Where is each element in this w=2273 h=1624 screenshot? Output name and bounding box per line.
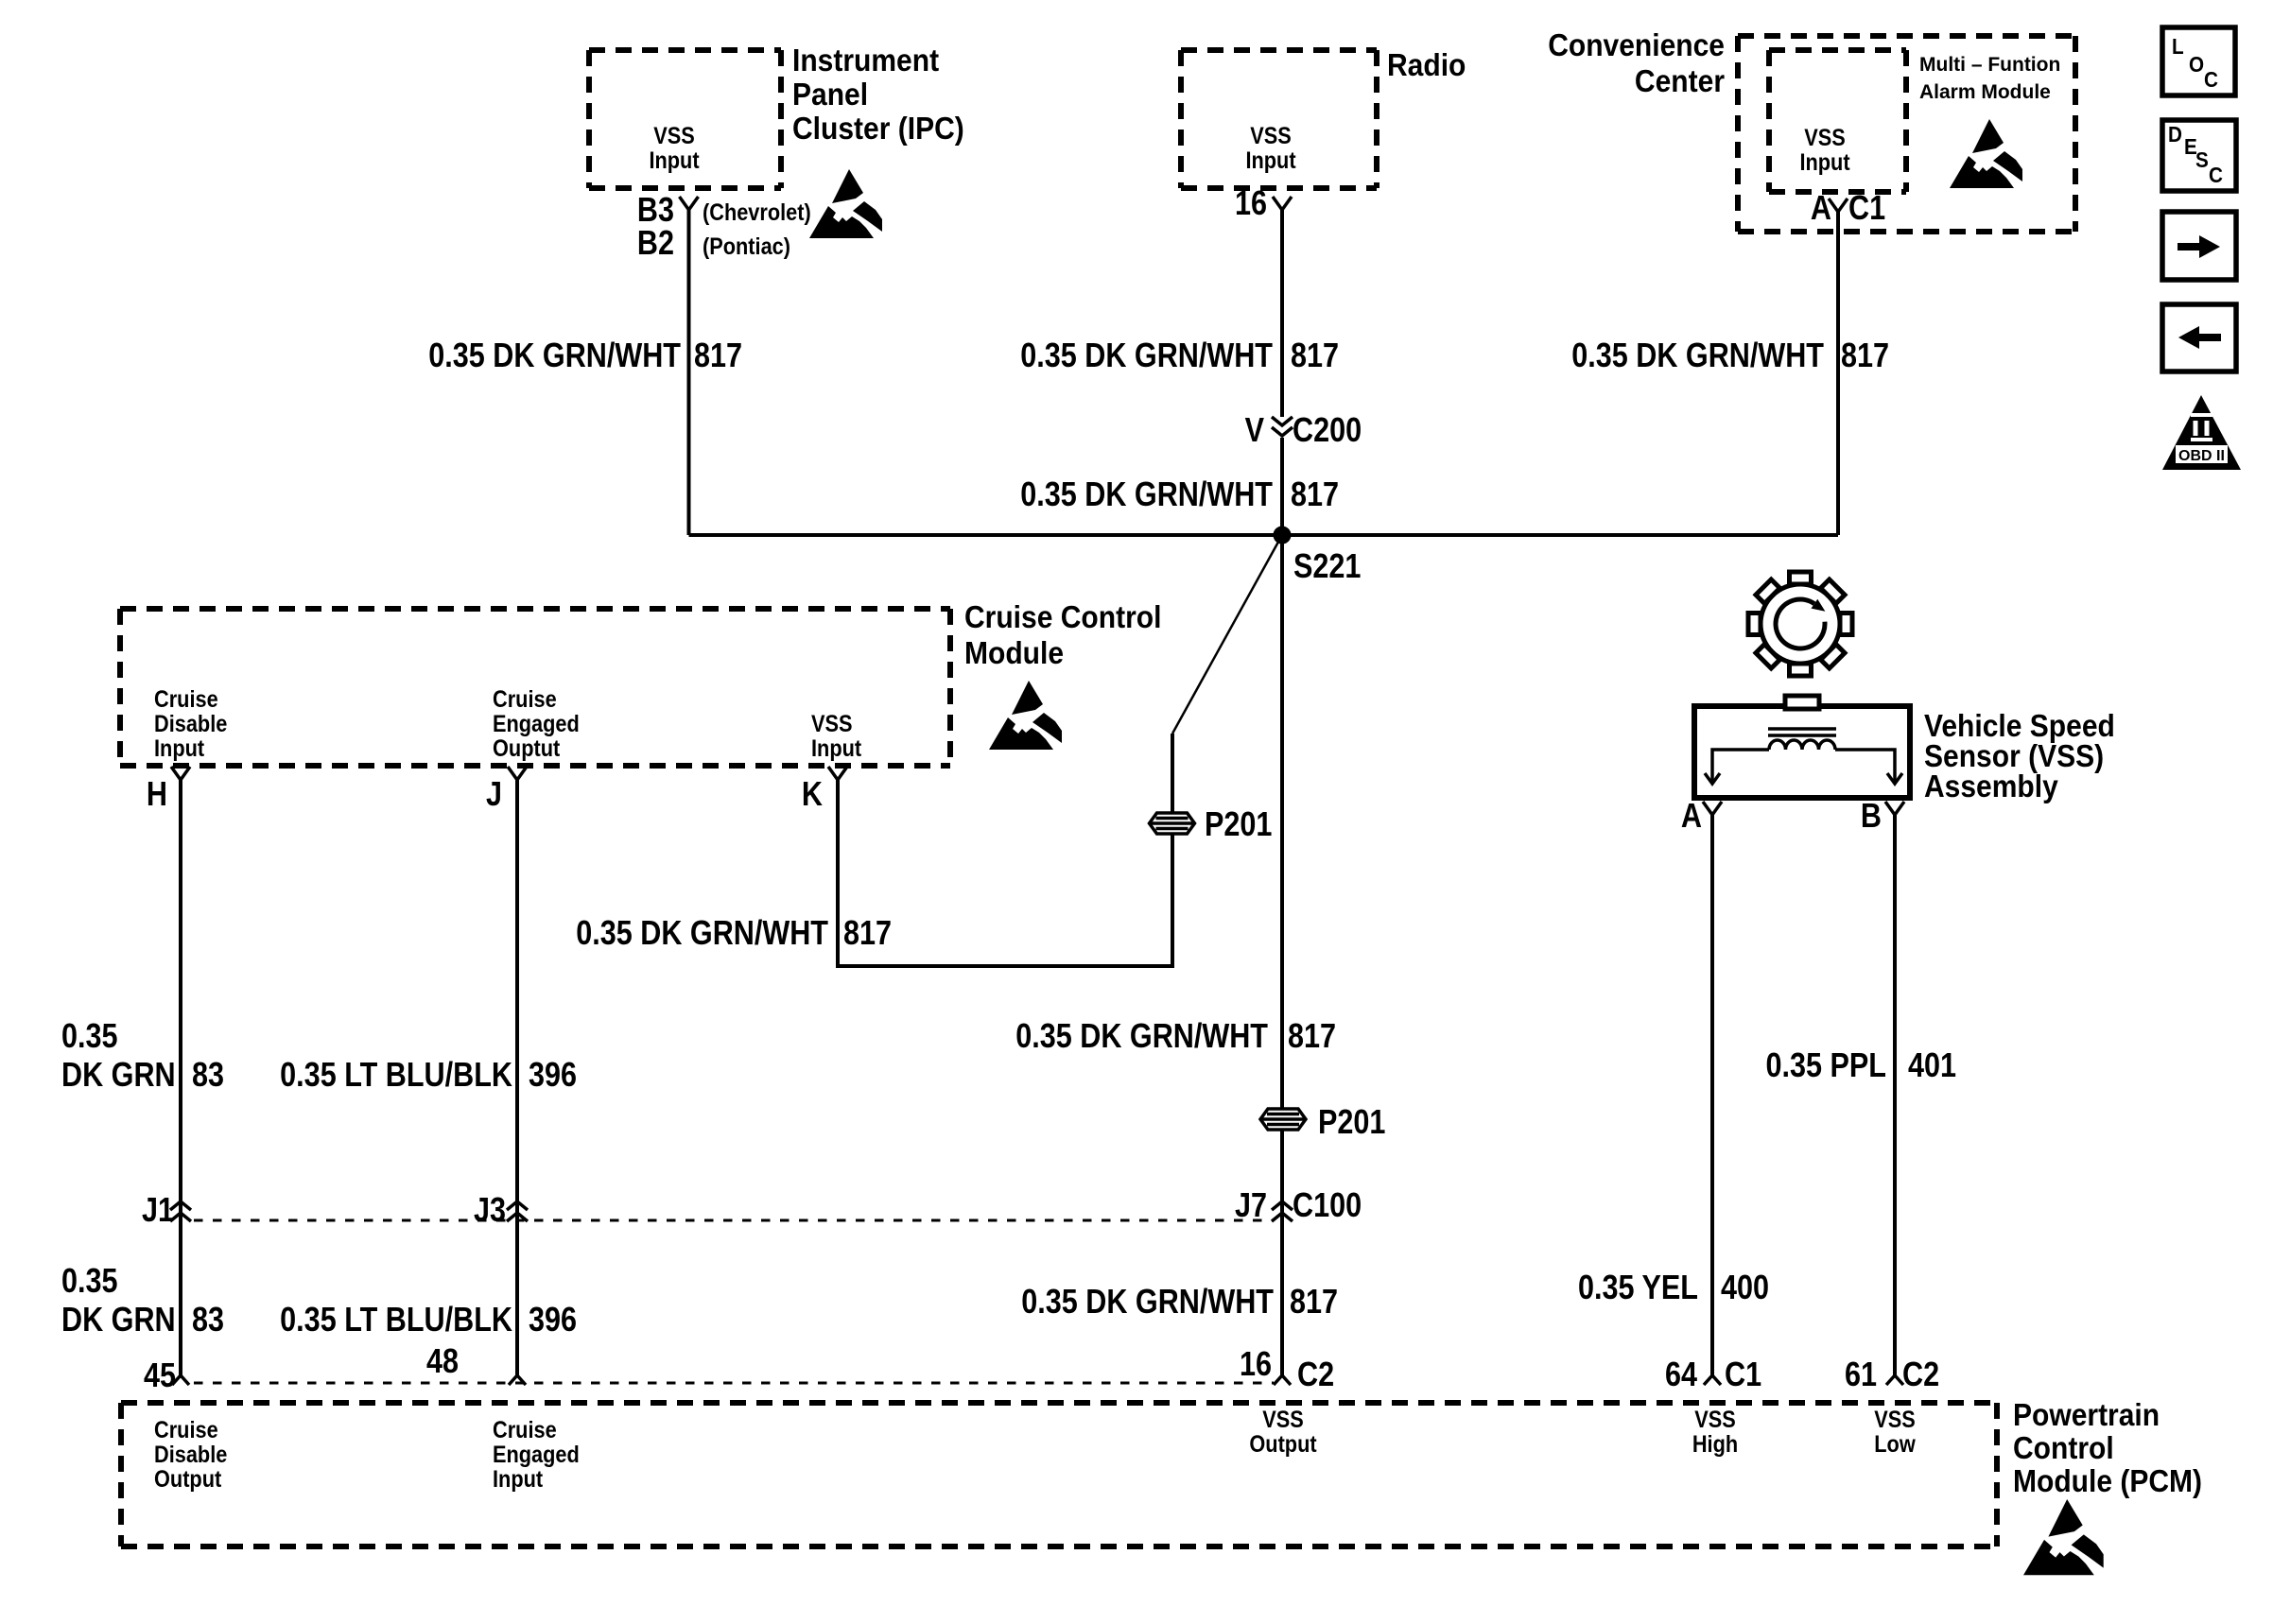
svg-text:0.35 PPL: 0.35 PPL xyxy=(1765,1047,1886,1085)
svg-text:C2: C2 xyxy=(1902,1356,1939,1394)
svg-text:0.35 DK GRN/WHT: 0.35 DK GRN/WHT xyxy=(576,915,828,953)
svg-text:(Pontiac): (Pontiac) xyxy=(703,233,790,260)
svg-text:Cruise: Cruise xyxy=(493,1417,557,1443)
svg-text:Cruise: Cruise xyxy=(493,686,557,713)
svg-text:0.35 YEL: 0.35 YEL xyxy=(1578,1270,1698,1307)
svg-text:Disable: Disable xyxy=(154,711,227,737)
svg-text:Engaged: Engaged xyxy=(493,711,580,737)
svg-text:Cruise Control: Cruise Control xyxy=(964,599,1161,635)
svg-text:0.35 DK GRN/WHT: 0.35 DK GRN/WHT xyxy=(1020,476,1273,514)
svg-text:L: L xyxy=(2172,34,2184,59)
svg-text:B: B xyxy=(1861,798,1882,836)
svg-text:OBD II: OBD II xyxy=(2178,448,2225,464)
svg-text:H: H xyxy=(147,776,167,814)
svg-text:C2: C2 xyxy=(1297,1356,1334,1394)
svg-text:J: J xyxy=(486,776,502,814)
svg-text:817: 817 xyxy=(1290,1284,1338,1322)
svg-text:VSS: VSS xyxy=(1250,123,1292,149)
svg-text:Ouptut: Ouptut xyxy=(493,735,560,762)
svg-text:Multi – Funtion: Multi – Funtion xyxy=(1919,54,2060,76)
svg-text:Control: Control xyxy=(2013,1430,2114,1466)
svg-text:64: 64 xyxy=(1665,1356,1697,1394)
svg-text:396: 396 xyxy=(529,1302,577,1339)
svg-text:Cruise: Cruise xyxy=(154,1417,218,1443)
svg-text:0.35: 0.35 xyxy=(61,1018,118,1056)
svg-text:VSS: VSS xyxy=(811,711,853,737)
svg-text:Low: Low xyxy=(1874,1431,1916,1458)
svg-text:(Chevrolet): (Chevrolet) xyxy=(703,199,811,226)
svg-text:C100: C100 xyxy=(1293,1187,1362,1225)
svg-text:VSS: VSS xyxy=(1262,1407,1304,1433)
svg-text:C1: C1 xyxy=(1725,1356,1761,1394)
svg-text:Cluster (IPC): Cluster (IPC) xyxy=(792,111,964,147)
svg-text:Input: Input xyxy=(1799,149,1849,176)
svg-text:817: 817 xyxy=(843,915,892,953)
svg-text:J1: J1 xyxy=(142,1192,174,1230)
svg-text:High: High xyxy=(1692,1431,1738,1458)
svg-text:0.35 DK GRN/WHT: 0.35 DK GRN/WHT xyxy=(428,337,681,375)
svg-text:A: A xyxy=(1811,190,1831,228)
svg-text:Output: Output xyxy=(154,1466,221,1493)
svg-text:V: V xyxy=(1245,412,1265,450)
svg-text:0.35 DK GRN/WHT: 0.35 DK GRN/WHT xyxy=(1015,1018,1268,1056)
svg-text:Disable: Disable xyxy=(154,1442,227,1468)
svg-text:Input: Input xyxy=(1245,147,1295,174)
svg-text:Input: Input xyxy=(493,1466,543,1493)
svg-text:VSS: VSS xyxy=(1694,1407,1736,1433)
svg-text:Panel: Panel xyxy=(792,77,868,112)
svg-text:401: 401 xyxy=(1908,1047,1956,1085)
svg-text:396: 396 xyxy=(529,1057,577,1095)
svg-text:16: 16 xyxy=(1235,185,1267,223)
svg-text:C: C xyxy=(2209,163,2223,187)
svg-text:Input: Input xyxy=(811,735,861,762)
svg-text:0.35: 0.35 xyxy=(61,1263,118,1301)
svg-text:Convenience: Convenience xyxy=(1548,27,1725,63)
svg-text:16: 16 xyxy=(1240,1346,1272,1384)
svg-text:Center: Center xyxy=(1635,63,1725,99)
svg-text:817: 817 xyxy=(1291,337,1339,375)
svg-text:0.35 DK GRN/WHT: 0.35 DK GRN/WHT xyxy=(1020,337,1273,375)
svg-text:817: 817 xyxy=(694,337,742,375)
svg-text:B2: B2 xyxy=(637,225,674,263)
svg-text:83: 83 xyxy=(192,1302,224,1339)
svg-text:P201: P201 xyxy=(1205,806,1272,844)
svg-text:C: C xyxy=(2204,67,2218,92)
svg-text:817: 817 xyxy=(1841,337,1889,375)
svg-text:0.35 DK GRN/WHT: 0.35 DK GRN/WHT xyxy=(1021,1284,1274,1322)
svg-text:0.35 DK GRN/WHT: 0.35 DK GRN/WHT xyxy=(1571,337,1824,375)
svg-text:J3: J3 xyxy=(474,1192,506,1230)
svg-text:A: A xyxy=(1681,798,1702,836)
svg-text:B3: B3 xyxy=(637,192,674,230)
svg-text:S221: S221 xyxy=(1293,548,1361,586)
svg-text:817: 817 xyxy=(1288,1018,1336,1056)
svg-text:Assembly: Assembly xyxy=(1924,769,2058,804)
svg-text:S: S xyxy=(2195,147,2209,172)
svg-text:61: 61 xyxy=(1845,1356,1877,1394)
svg-text:O: O xyxy=(2189,52,2204,77)
svg-text:0.35 LT BLU/BLK: 0.35 LT BLU/BLK xyxy=(280,1302,512,1339)
svg-text:C200: C200 xyxy=(1293,412,1362,450)
svg-text:C1: C1 xyxy=(1848,190,1885,228)
svg-text:83: 83 xyxy=(192,1057,224,1095)
svg-text:400: 400 xyxy=(1721,1270,1769,1307)
svg-text:Alarm Module: Alarm Module xyxy=(1919,81,2051,103)
svg-text:DK GRN: DK GRN xyxy=(61,1057,176,1095)
svg-text:Radio: Radio xyxy=(1387,47,1466,83)
svg-text:Input: Input xyxy=(649,147,699,174)
svg-text:D: D xyxy=(2168,122,2182,147)
svg-text:Module: Module xyxy=(964,635,1064,671)
svg-text:Output: Output xyxy=(1249,1431,1316,1458)
svg-text:Module (PCM): Module (PCM) xyxy=(2013,1463,2202,1499)
svg-text:Powertrain: Powertrain xyxy=(2013,1397,2160,1433)
svg-text:VSS: VSS xyxy=(653,123,695,149)
svg-text:Input: Input xyxy=(154,735,204,762)
svg-text:VSS: VSS xyxy=(1874,1407,1916,1433)
svg-text:Cruise: Cruise xyxy=(154,686,218,713)
svg-text:P201: P201 xyxy=(1318,1104,1385,1142)
svg-text:817: 817 xyxy=(1291,476,1339,514)
svg-text:Instrument: Instrument xyxy=(792,43,940,78)
svg-text:VSS: VSS xyxy=(1804,125,1846,151)
svg-text:48: 48 xyxy=(426,1343,459,1381)
svg-text:Engaged: Engaged xyxy=(493,1442,580,1468)
svg-text:K: K xyxy=(802,776,823,814)
svg-text:0.35 LT BLU/BLK: 0.35 LT BLU/BLK xyxy=(280,1057,512,1095)
svg-text:45: 45 xyxy=(144,1357,176,1395)
svg-text:DK GRN: DK GRN xyxy=(61,1302,176,1339)
